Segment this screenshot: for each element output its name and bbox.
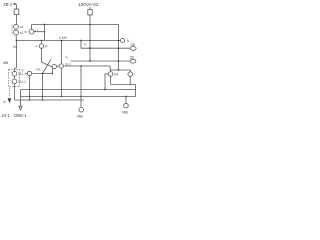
left branch under B2: vertical x=16.5 y40.5-68 [16,41,18,69]
label left of arrow [3,100,6,104]
crossing diagonal d2 long down-left to rail B3 [43,59,52,73]
bottom-left contact M2 circle [12,79,17,84]
svg-text:hd: hd [36,68,40,72]
label above B2 mid [59,36,86,46]
junction at left corner of B2 [16,40,18,42]
svg-text:w: w [3,100,6,104]
row wire y=66 long right segment to coil rail [63,65,110,67]
crossing diagonal d1 into circle1 [42,62,53,67]
bus B6 (y=96.5) [21,96,136,98]
oval terminal 36 [130,59,136,63]
feed label 100VA-02 [78,2,99,7]
svg-text:b: b [84,42,86,46]
bus B5 (y=89.5) [21,89,136,91]
wire V1 top [16,4,18,9]
labels around contact [24,29,38,34]
label hd under B2 left [13,44,17,49]
svg-text:MB: MB [77,114,83,118]
svg-text:w: w [24,30,27,34]
dot where link lands on B3 [51,73,53,75]
bottom-left contact M1 circle [12,71,17,76]
svg-text:2B-1: 2B-1 [3,2,13,7]
contact a2 circle (left wire) [14,30,19,35]
bus B7 (y=99.8) [15,99,85,101]
B2 stub to indicator circle [119,40,121,42]
vertical x=62 from B2 to row2 circle [61,41,63,64]
H1 wire y=47.8 to oval terminal [81,47,130,49]
svg-text:N: N [127,39,130,43]
junction dot at (44.5,24.5) [44,24,46,26]
branch x=41.5: drop from B2 [41,41,43,44]
svg-text:a1: a1 [34,29,38,33]
rail B3 (y=73.5) left stub [26,73,28,75]
junction dot at (44.5,31.7) [44,31,46,33]
contact a1 circle (left wire) [14,24,19,29]
coil 2 drop [129,70,131,72]
wire between contacts [15,29,17,30]
wire between [14,76,16,79]
vertical x=44.5 from B1 to B2 [44,25,46,41]
lamp at bottom right hanging from B6 [125,96,127,98]
oval terminal 2B [130,47,136,51]
wire V1 to bus B2 [15,35,17,41]
svg-text:M: M [45,45,48,49]
svg-text:MB: MB [122,110,128,114]
node label 2B-1 (top-left feed) [3,2,13,7]
dot at B6 [61,96,63,98]
bus B2 (y=40.5) [17,40,119,42]
tiny label at H2 left end [66,55,68,59]
feed wire continues B1 to B2 [89,25,91,41]
left end drop x=20.5 from B5 to terminal [20,90,22,107]
contact circle row2 at (61.3,66) [59,64,63,68]
branch from feed x=90 down below B2 [89,41,91,62]
indicator circle on B2 right end [121,38,125,42]
bottom-left net labels [1,113,27,118]
junction dot where H1 crosses x=90 [89,47,91,49]
svg-text:a2: a2 [20,31,24,35]
svg-text:24-1: 24-1 [1,113,10,118]
coil1 left stub and drop x=105 to B5 [105,73,108,75]
vertical x=62 below circle down to bus B6 [61,68,63,96]
bus B1 (y=24.5) [32,24,119,26]
B1 left corner drop to contact circle [31,25,33,30]
wire below contacts to B7 corner [14,84,16,100]
rail B3 from circle to x=52 [32,73,53,75]
contact W circle on B1 drop [29,29,34,34]
H2 wire y=60.8 to oval terminal [71,60,131,62]
svg-text:8B: 8B [3,61,8,65]
jog to contact column [15,67,17,69]
labels right of contacts [18,72,26,84]
dot where d2 lands on B3 [42,73,44,75]
svg-text:36: 36 [130,55,134,59]
coil 1 circle [108,72,113,77]
right vertical x=118.5 from B1 corner down [118,25,120,71]
fuse F2 box on feed wire [88,10,92,16]
junction dot at (90,40.5) [89,40,91,42]
wire V1 mid [16,15,18,25]
drop x=81 from B2 to H1 [80,41,82,49]
svg-text:b M6: b M6 [59,36,67,40]
svg-text:100VA-02: 100VA-02 [78,2,99,7]
dashed line down to arrow [9,88,11,98]
coil rail y=70 [110,69,130,71]
branch continues below contact [41,48,43,62]
vertical x=29.5 below circle to B7 [29,76,31,101]
link coil join through B5 to B6 at right end [135,85,137,97]
coil bottoms joined at y=84.5 [110,76,112,84]
drop of row into coil rail [109,66,111,70]
svg-text:OB9-1: OB9-1 [14,113,27,118]
coil 1 drop [110,70,112,72]
dashed enclosure box around contacts [9,70,20,87]
contact M circle at (41.5,46.1) [39,44,43,48]
contact circle at (29.5,73.5) [27,71,31,75]
feed wire x=90 top [89,7,91,10]
vertical x=42.5 below rail to B7 [42,74,44,101]
junction dot at (90,24.5) [89,24,91,26]
arrow into top-left wire [13,3,16,5]
label MB under lamp [77,114,83,118]
coil 2 circle [128,72,133,77]
left tick of contact [36,45,38,47]
contact labels [20,25,24,35]
svg-text:): ) [133,73,134,77]
contact circle row1 at (54.3,66.6) [52,65,56,69]
wire from contact right to x=44.5 [34,31,45,33]
row wire between circles [56,65,59,67]
open terminal triangle at bottom [19,106,22,110]
svg-text:M4: M4 [114,73,119,77]
label right of row2 [66,62,72,66]
labels near rail B3 [21,68,40,73]
fuse F1 box on left wire [14,9,19,15]
lamp circle hanging at (81.3,109.7) [79,107,84,112]
filled arrow head (mechanical) [8,98,12,103]
branch x=81 from row down to B6 and lamp [80,66,82,97]
label 8B left of wire [3,61,8,65]
svg-text:b: b [66,55,68,59]
short link circle1 down to rail B3 [51,68,54,73]
svg-text:a1: a1 [20,25,24,29]
feed wire to B1 [89,15,91,25]
dashed mechanical link left of contacts [11,25,13,35]
svg-text:2B: 2B [130,43,135,47]
